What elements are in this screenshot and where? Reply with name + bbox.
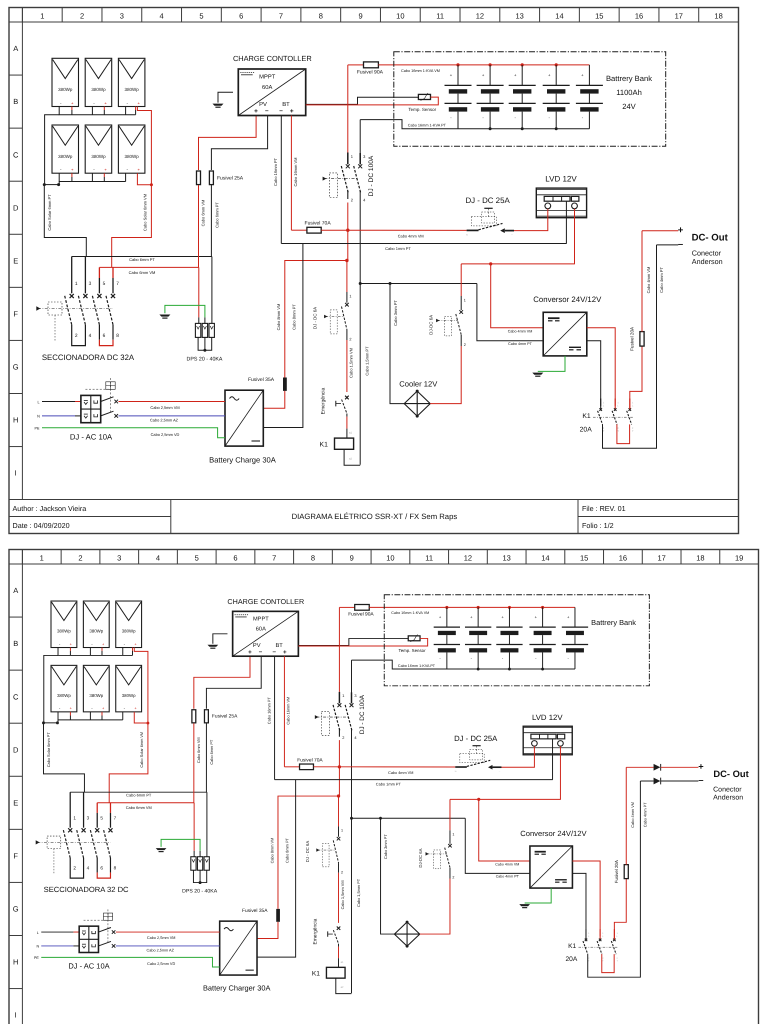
solar panel PV1: [52, 58, 79, 106]
svg-text:DJ - DC 100A: DJ - DC 100A: [368, 155, 375, 196]
disconnector pole 7: [112, 267, 114, 278]
svg-text:12: 12: [464, 554, 472, 563]
svg-text:SECCIONADORA 32 DC: SECCIONADORA 32 DC: [44, 885, 129, 894]
svg-text:H: H: [13, 416, 18, 425]
wire junction down (red): [347, 230, 349, 260]
svg-text:Cabo 4mm PT: Cabo 4mm PT: [508, 342, 533, 346]
svg-text:Battery Charger 30A: Battery Charger 30A: [203, 984, 271, 993]
junction DPS bottom: [199, 881, 202, 884]
column divider 2: [61, 8, 63, 23]
svg-text:Cabo 8mm PT: Cabo 8mm PT: [285, 838, 290, 863]
svg-text:Cabo 4mm PT: Cabo 4mm PT: [659, 267, 664, 293]
wire row2 panel interconnect: [59, 173, 125, 181]
bus Cabo 6mm PT: [72, 256, 212, 258]
svg-text:Battrery Bank: Battrery Bank: [606, 74, 652, 83]
svg-text:Cabo 16mm PT: Cabo 16mm PT: [273, 157, 278, 186]
emergency stop switch: [345, 396, 349, 400]
wire to emergency switch (red): [346, 340, 348, 392]
surge arrester DPS1: [195, 323, 200, 337]
relay coil K1: [335, 438, 354, 449]
column divider 15: [564, 550, 566, 565]
svg-text:2: 2: [80, 12, 84, 21]
svg-text:–: –: [259, 649, 263, 656]
disconnector pole 1: [69, 792, 71, 827]
svg-text:3: 3: [87, 816, 90, 822]
svg-text:Cabo 1,5mm VM: Cabo 1,5mm VM: [340, 880, 345, 909]
junction negative trunk: [359, 282, 362, 285]
svg-text:K1: K1: [582, 413, 591, 420]
svg-text:SECCIONADORA DC 32A: SECCIONADORA DC 32A: [42, 353, 135, 362]
contactor K1 pole 3: [613, 929, 615, 939]
junction battery 2 positive: [489, 63, 492, 66]
battery negative bus: [411, 128, 590, 130]
ground wire charge controller: [218, 92, 233, 102]
page border frame: [9, 8, 739, 534]
svg-text:380Wp: 380Wp: [89, 629, 103, 634]
junction cooler negative: [389, 282, 392, 285]
svg-text:6: 6: [103, 333, 106, 339]
wire BT+ down (red): [290, 116, 292, 231]
disconnector pole 3: [84, 257, 86, 294]
ground wire conversor (green): [525, 888, 552, 903]
row divider E: [9, 775, 22, 777]
svg-text:1: 1: [452, 833, 454, 837]
row divider H: [9, 934, 22, 936]
svg-text:3: 3: [89, 281, 92, 287]
surge arrester DPS2: [202, 323, 207, 337]
wire charger positive riser (red): [285, 261, 347, 378]
contactor K1 pole 2: [614, 399, 616, 410]
wire fuse 20A to DC-Out (red): [625, 767, 627, 864]
wire battery positive drop (red): [338, 607, 340, 691]
temp sensor RT1: [408, 636, 420, 641]
column divider 17: [658, 8, 660, 23]
svg-text:G: G: [13, 905, 19, 914]
row divider E: [9, 233, 22, 235]
svg-text:Cabo Solar 6mm VM: Cabo Solar 6mm VM: [143, 194, 148, 231]
svg-text:2: 2: [78, 554, 82, 563]
svg-text:C: C: [13, 692, 19, 701]
wire pole1 to fuse 70A junction (red): [347, 203, 349, 231]
row divider B: [9, 74, 22, 76]
column divider 16: [618, 8, 620, 23]
wire row2 string negative: [58, 182, 60, 185]
svg-text:380Wp: 380Wp: [89, 693, 103, 698]
column divider 14: [525, 550, 527, 565]
svg-text:G: G: [13, 363, 19, 372]
battery B3: [521, 65, 523, 86]
svg-text:7: 7: [279, 12, 283, 21]
wire DC-Out positive (red): [642, 230, 678, 232]
breaker DJ-DC 100A pole 2: [359, 120, 361, 165]
fuse F25 black leg: [209, 171, 213, 185]
contactor link dash-dot: [578, 946, 618, 948]
svg-text:Temp. Sensor: Temp. Sensor: [399, 648, 427, 653]
conversor U2 box: [530, 846, 573, 888]
wire L phase: [41, 931, 73, 933]
junction PV negative: [44, 722, 58, 724]
page border frame: [9, 550, 759, 1024]
wire red bus to DPS: [198, 267, 200, 317]
emergency stop switch: [337, 926, 341, 929]
wire DPS bottoms: [193, 870, 206, 882]
svg-text:--: --: [499, 771, 501, 773]
fuse F20: [640, 332, 644, 347]
wire DPS bottoms: [198, 337, 212, 350]
fuse F90: [355, 605, 370, 611]
svg-text:Cabo 16mm 1-KVA PT: Cabo 16mm 1-KVA PT: [398, 664, 436, 668]
svg-text:Cabo 8mm VM: Cabo 8mm VM: [269, 838, 274, 864]
wire fuse 35A to charger (red): [263, 391, 285, 408]
contactor K1 pole 3: [629, 399, 631, 410]
switch DJ-DC 25A: [455, 766, 467, 768]
wire row1 panel interconnect: [59, 107, 135, 115]
ground wire conversor (green): [538, 356, 565, 372]
wire row2 panel interconnect: [58, 712, 123, 720]
svg-text:3: 3: [120, 12, 124, 21]
wire BT+ down (red): [283, 656, 285, 767]
wire fuse to bus VM (red): [193, 723, 195, 802]
column divider 7: [260, 8, 262, 23]
svg-text:+: +: [248, 649, 252, 656]
wire link poles 2-4: [72, 325, 86, 346]
wire conversor positive drop (red): [491, 264, 544, 328]
breaker DJ-DC 100A pole 1: [338, 692, 340, 703]
wire fuse 70A to junction (red): [313, 766, 339, 768]
wire 12V positive distribution (red): [461, 263, 575, 265]
svg-text:Cabo 6mm PT: Cabo 6mm PT: [129, 257, 155, 262]
bus Cabo 6mm VM: [99, 266, 198, 268]
battery B1: [446, 607, 448, 627]
solar panel PV1: [51, 601, 77, 647]
battery charger box: [220, 921, 257, 975]
row divider G: [9, 339, 22, 341]
svg-text:–: –: [265, 108, 269, 115]
charge controller U1 box: [238, 69, 305, 116]
battery bank enclosure: [394, 52, 666, 146]
wire black bus to DPS: [206, 792, 208, 857]
junction PV positive: [150, 183, 153, 186]
svg-text:5: 5: [199, 12, 203, 21]
wire conversor 12V+ out (red): [587, 328, 615, 406]
junction battery 1 positive: [456, 63, 459, 66]
wire red bus to DPS: [193, 803, 195, 851]
svg-text:Cabo 1,5mm VM: Cabo 1,5mm VM: [349, 348, 354, 378]
svg-text:DPS 20 - 40KA: DPS 20 - 40KA: [187, 356, 223, 362]
svg-text:2: 2: [349, 338, 351, 342]
wire junction to DJ-DC 25A (red): [348, 229, 467, 231]
wire DC-Out negative: [640, 780, 653, 782]
cooler fan M1: [404, 391, 430, 416]
svg-text:60A: 60A: [256, 626, 266, 633]
wire K1 pole1 bottom to DC-Out negative: [603, 245, 657, 448]
svg-text:D: D: [13, 745, 19, 754]
column divider 17: [641, 550, 643, 565]
wire N to charger (blue): [119, 415, 226, 417]
junction load positive: [338, 765, 341, 768]
wire emergency to K1 coil (red): [338, 944, 340, 947]
wire PV negative to seccionadora: [44, 185, 86, 257]
solar panel PV3: [118, 58, 144, 106]
svg-text:4: 4: [156, 554, 160, 563]
junction cooler negative: [379, 817, 382, 820]
mechanism dashes cooler breaker: [434, 850, 441, 869]
column divider 1: [21, 8, 23, 23]
svg-text:2: 2: [341, 870, 343, 874]
wire PV+ to fuse 25A (red): [199, 116, 257, 171]
svg-text:60A: 60A: [262, 84, 272, 91]
svg-text:Cabo 3mm PT: Cabo 3mm PT: [383, 834, 388, 859]
svg-text:3: 3: [117, 554, 121, 563]
svg-text:DC- Out: DC- Out: [692, 233, 729, 244]
mechanism dashes DJ-DC 6A: [322, 844, 329, 867]
wire negative branch horizontal: [351, 817, 465, 819]
wire controller to temp sensor: [306, 97, 419, 104]
solar panel PV4: [52, 125, 79, 173]
wire link poles 6-8 (red): [98, 325, 100, 340]
wire charger negative: [263, 244, 303, 428]
svg-text:8: 8: [114, 866, 117, 872]
column divider 9: [340, 8, 342, 23]
breaker DJ-DC 6A emergency: [346, 261, 348, 293]
svg-text:Cabo 2,5mm AZ: Cabo 2,5mm AZ: [150, 418, 179, 423]
svg-text:H: H: [13, 958, 18, 967]
junction battery 2 positive: [477, 606, 480, 609]
svg-text:Cabo 16mm 1-KVA VM: Cabo 16mm 1-KVA VM: [401, 69, 440, 73]
svg-text:1: 1: [40, 554, 44, 563]
svg-text:Anderson: Anderson: [692, 257, 723, 266]
svg-text:Cabo 4mm VM: Cabo 4mm VM: [495, 862, 519, 866]
charge controller U1 box: [233, 611, 299, 656]
svg-text:Cabo 6mm VM: Cabo 6mm VM: [126, 805, 152, 810]
svg-text:1: 1: [75, 281, 78, 287]
svg-text:Anderson: Anderson: [713, 793, 743, 802]
column divider 3: [101, 8, 103, 23]
svg-text:380Wp: 380Wp: [125, 154, 140, 159]
row divider B: [9, 616, 22, 618]
svg-text:9: 9: [358, 12, 362, 21]
wire PV positive to seccionadora: [112, 185, 152, 268]
wire row2 string positive (red): [134, 712, 148, 723]
wire battery positive drop (red): [347, 65, 349, 153]
junction emergency branch: [345, 259, 348, 262]
wire K1 pole2-pole3 link (red): [617, 424, 630, 443]
wire black bus to DPS: [211, 257, 213, 324]
svg-text:Cooler 12V: Cooler 12V: [399, 380, 438, 389]
svg-text:Cabo 2,5mm VD: Cabo 2,5mm VD: [151, 432, 180, 437]
svg-text:K1: K1: [320, 441, 329, 448]
column divider 11: [409, 550, 411, 565]
breaker DJ-AC 10A: [79, 926, 98, 952]
svg-text:DJ - DC 6A: DJ - DC 6A: [305, 841, 310, 862]
column divider 2: [60, 550, 62, 565]
wire row1 string negative: [44, 655, 58, 722]
svg-text:–: –: [698, 775, 703, 786]
column divider 10: [379, 8, 381, 23]
svg-text:I: I: [15, 469, 17, 478]
svg-text:5: 5: [100, 816, 103, 822]
svg-text:A: A: [13, 586, 18, 595]
diode D2: [654, 778, 661, 785]
fuse F25 red leg: [192, 710, 196, 723]
solar panel PV2: [85, 58, 112, 106]
svg-text:Emergência: Emergência: [320, 387, 326, 414]
svg-text:–: –: [279, 108, 283, 115]
row divider F: [9, 286, 22, 288]
column divider 9: [331, 550, 333, 565]
wire K1 coil return: [344, 449, 360, 465]
svg-text:LVD 12V: LVD 12V: [532, 713, 563, 722]
battery B4: [542, 607, 544, 627]
svg-text:2: 2: [452, 875, 454, 879]
column divider 4: [138, 550, 140, 565]
svg-text:4: 4: [160, 12, 164, 21]
svg-text:Fusivel 25A: Fusivel 25A: [212, 714, 238, 720]
bus Cabo 6mm VM: [97, 802, 194, 804]
solar panel PV4: [51, 665, 77, 711]
svg-text:Cabo 6mm PT: Cabo 6mm PT: [209, 739, 214, 764]
column header strip: [9, 563, 759, 565]
wire fuse 90A to battery bus (red): [369, 606, 447, 608]
svg-text:8: 8: [319, 12, 323, 21]
ground symbol conversor: [532, 373, 543, 375]
wire charger positive riser (red): [278, 796, 339, 909]
ground symbol charge controller: [213, 104, 224, 106]
svg-text:1: 1: [464, 298, 466, 302]
fuse F25 red leg: [197, 171, 201, 185]
svg-text:1: 1: [349, 294, 351, 298]
junction PV positive: [146, 722, 149, 725]
wire PV negative to seccionadora: [43, 723, 84, 792]
wire 12V positive distribution (red): [450, 798, 561, 800]
solar panel PV5: [83, 665, 109, 711]
svg-text:13: 13: [503, 554, 511, 563]
cooler fan M1: [394, 922, 419, 946]
svg-text:DJ - DC 25A: DJ - DC 25A: [454, 734, 498, 743]
battery B3: [508, 607, 510, 627]
svg-text:Temp. Sensor: Temp. Sensor: [408, 107, 436, 112]
svg-text:Cabo 6mm PT: Cabo 6mm PT: [214, 202, 219, 228]
disconnector pole 5: [98, 267, 100, 278]
svg-text:4: 4: [87, 866, 90, 872]
relay coil K1: [326, 967, 345, 978]
svg-text:Fusivel 70A: Fusivel 70A: [297, 757, 323, 763]
surge arrester DPS3: [209, 323, 214, 337]
svg-text:Fusivel 20A: Fusivel 20A: [614, 859, 619, 883]
disconnector mechanism dashed box: [47, 836, 61, 849]
svg-text:DJ - AC 10A: DJ - AC 10A: [70, 432, 113, 441]
junction battery negative: [508, 668, 511, 671]
wire fuse to bus PT: [210, 185, 212, 257]
svg-text:380Wp: 380Wp: [125, 87, 140, 92]
wire L to charger (red): [119, 401, 226, 403]
svg-text:Cabo 3mm PT: Cabo 3mm PT: [393, 300, 398, 326]
solar panel PV3: [116, 601, 142, 647]
ground symbol DPS: [156, 848, 167, 850]
ground wire DPS (green): [165, 305, 205, 317]
svg-text:11: 11: [436, 12, 444, 21]
svg-text:L: L: [37, 931, 39, 935]
svg-text:5: 5: [195, 554, 199, 563]
svg-text:Conversor 24V/12V: Conversor 24V/12V: [520, 829, 587, 838]
svg-text:+: +: [254, 108, 258, 115]
ground symbol DPS: [159, 315, 170, 317]
battery B2: [489, 65, 491, 86]
svg-text:10: 10: [396, 12, 404, 21]
svg-text:380Wp: 380Wp: [57, 629, 71, 634]
wire temp sensor return (red): [306, 97, 439, 105]
svg-text:6: 6: [239, 12, 243, 21]
row divider D: [9, 180, 22, 182]
contactor K1 pole 2: [599, 929, 601, 939]
junction battery 1 positive: [445, 606, 448, 609]
column divider 18: [698, 8, 700, 23]
junction battery negative: [521, 127, 524, 130]
svg-text:20A: 20A: [580, 426, 593, 433]
wire conversor negative drop: [477, 284, 543, 341]
wire row1 panel interconnect: [58, 648, 132, 656]
svg-text:16: 16: [619, 554, 627, 563]
disconnector pole 7: [109, 803, 111, 813]
svg-text:12: 12: [476, 12, 484, 21]
wire conversor 12V- out: [587, 341, 601, 406]
column divider 8: [293, 550, 295, 565]
svg-text:B: B: [13, 639, 18, 648]
wire PV+ to fuse 25A (red): [194, 656, 250, 709]
column divider 1: [21, 550, 23, 565]
wire BT- down: [274, 656, 276, 779]
wire pole2 negative trunk: [359, 191, 361, 465]
junction battery negative: [489, 127, 492, 130]
svg-text:Fusivel 25A: Fusivel 25A: [217, 175, 244, 181]
svg-text:17: 17: [657, 554, 665, 563]
junction load positive: [346, 229, 349, 232]
surge arrester DPS1: [191, 857, 196, 871]
svg-text:N: N: [37, 415, 40, 419]
svg-text:+: +: [678, 225, 684, 236]
svg-text:Cabo 4mm VM: Cabo 4mm VM: [398, 234, 424, 239]
column divider 7: [254, 550, 256, 565]
svg-text:1: 1: [341, 829, 343, 833]
svg-text:380Wp: 380Wp: [122, 629, 136, 634]
wire row1 string positive (red): [137, 107, 151, 185]
svg-text:380Wp: 380Wp: [122, 693, 136, 698]
svg-text:Cabo 6mm VM: Cabo 6mm VM: [129, 270, 156, 275]
wire battery positive feed (red): [348, 64, 364, 66]
breaker DJ-AC blades: [98, 928, 110, 933]
ground wire charge controller: [213, 634, 228, 644]
wire PV- to fuse 25A: [211, 116, 267, 171]
wire BT+ to fuse 70A (red): [291, 229, 307, 231]
wire LVD input (red): [513, 209, 547, 231]
wire row1 string positive (red): [134, 648, 148, 724]
svg-text:Emergência: Emergência: [313, 918, 319, 944]
svg-text:9: 9: [350, 554, 354, 563]
row divider A: [9, 563, 22, 565]
row divider C: [9, 127, 22, 129]
svg-text:L: L: [37, 400, 39, 404]
conversor U2 box: [543, 312, 587, 356]
wire junction to DJ-DC 25A (red): [339, 766, 455, 768]
svg-text:+: +: [290, 108, 294, 115]
svg-text:Cabo 4mm VM: Cabo 4mm VM: [508, 329, 533, 333]
wire conversor 12V+ out (red): [572, 861, 600, 936]
svg-text:24V: 24V: [622, 102, 636, 111]
svg-text:Cabo 2,5mm VD: Cabo 2,5mm VD: [147, 961, 175, 966]
svg-text:Conversor 24V/12V: Conversor 24V/12V: [533, 295, 602, 304]
breaker DJ-DC 100A pole 1: [347, 153, 349, 165]
svg-text:Cabo 6mm PT: Cabo 6mm PT: [126, 792, 152, 797]
